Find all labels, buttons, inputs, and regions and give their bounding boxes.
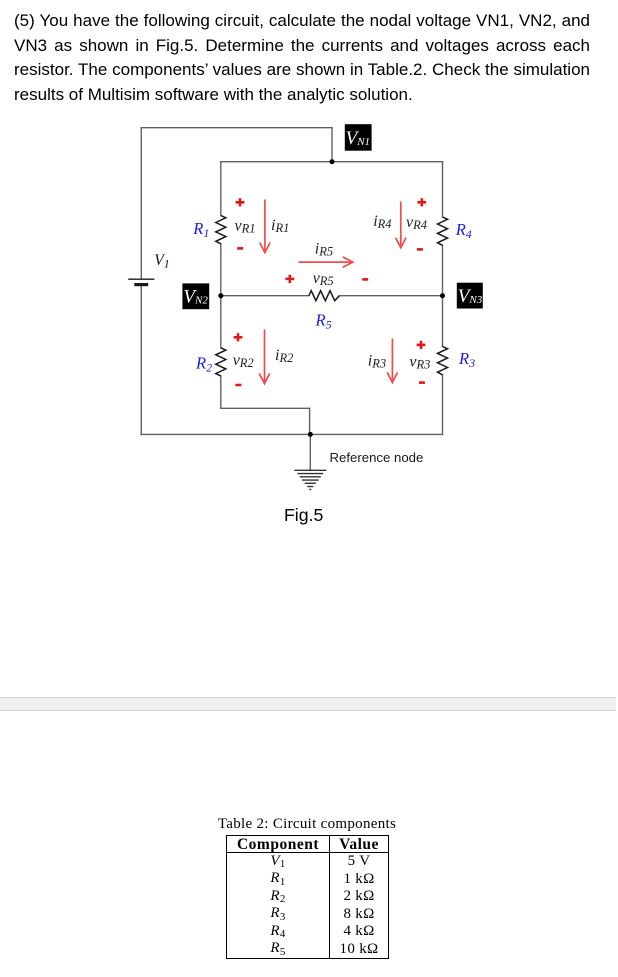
minus sign R1 xyxy=(237,247,243,250)
plus sign R3 xyxy=(417,341,426,349)
node box VN3 xyxy=(457,283,483,309)
node dot reference junction xyxy=(308,432,313,437)
node box VN1 xyxy=(345,124,372,151)
wire inner top horizontal xyxy=(221,161,443,163)
svg-text:Reference node: Reference node xyxy=(330,450,424,465)
svg-text:R2: R2 xyxy=(195,354,212,375)
svg-text:iR2: iR2 xyxy=(275,347,293,365)
wire middle right of R5 xyxy=(339,295,442,297)
svg-text:vR2: vR2 xyxy=(233,352,254,370)
minus sign R2 xyxy=(235,384,241,387)
wire node VN3 down to R3 xyxy=(442,296,444,347)
minus sign R4 xyxy=(417,248,423,251)
resistor R5 xyxy=(309,291,340,301)
svg-text:R1: R1 xyxy=(192,219,209,240)
wire outer top horizontal xyxy=(141,127,332,129)
plus sign R4 xyxy=(417,198,426,206)
node dot VN2 junction xyxy=(218,293,223,298)
svg-text:V1: V1 xyxy=(154,252,169,271)
wire outer left vertical (below battery) xyxy=(140,285,142,434)
svg-text:vR5: vR5 xyxy=(313,270,334,288)
resistor R4 xyxy=(438,217,448,245)
resistor R1 xyxy=(216,216,226,244)
svg-text:R3: R3 xyxy=(458,349,475,370)
minus sign R5 xyxy=(362,278,368,281)
wire node VN2 down to R2 xyxy=(220,296,222,348)
node dot VN1 junction xyxy=(330,159,335,164)
current arrow iR4 xyxy=(396,202,406,248)
wire ground stem xyxy=(309,434,311,470)
wire bottom horizontal xyxy=(141,433,442,435)
ground xyxy=(294,470,326,489)
wire R1 bottom to node VN2 xyxy=(220,244,222,296)
wire VN1 drop xyxy=(331,128,333,162)
wire middle left of R5 xyxy=(221,295,309,297)
wire below R3 xyxy=(442,375,444,435)
node dot VN3 junction xyxy=(440,293,445,298)
svg-text:vR1: vR1 xyxy=(235,218,256,236)
current arrow iR1 xyxy=(260,200,270,253)
wire inner left above R1 xyxy=(220,162,222,216)
current arrow iR5 xyxy=(298,257,353,267)
wire outer left vertical (top of battery) xyxy=(140,128,142,279)
svg-text:vR3: vR3 xyxy=(409,353,430,371)
plus sign R1 xyxy=(236,198,245,206)
node box VN2 xyxy=(182,283,209,309)
svg-text:Fig.5: Fig.5 xyxy=(284,505,323,525)
wire right vertical above R4 xyxy=(442,162,444,217)
wire R4 bottom to node VN3 xyxy=(442,245,444,295)
svg-text:iR5: iR5 xyxy=(315,241,333,259)
battery V1 xyxy=(128,279,154,284)
svg-text:iR1: iR1 xyxy=(271,217,289,235)
svg-text:iR4: iR4 xyxy=(373,213,391,231)
current arrow iR2 xyxy=(259,329,269,383)
wire below R2 xyxy=(220,376,222,408)
plus sign R2 xyxy=(234,333,243,341)
resistor R3 xyxy=(438,346,448,374)
wire jog vertical xyxy=(309,408,311,434)
minus sign R3 xyxy=(419,381,425,384)
current arrow iR3 xyxy=(387,339,397,383)
svg-text:R5: R5 xyxy=(315,311,332,332)
svg-text:vR4: vR4 xyxy=(406,214,427,232)
svg-text:iR3: iR3 xyxy=(368,352,386,370)
resistor R2 xyxy=(216,348,226,376)
wire jog horizontal xyxy=(221,407,310,409)
plus sign R5 xyxy=(285,275,294,283)
gray band xyxy=(0,697,616,711)
svg-text:R4: R4 xyxy=(455,220,472,241)
